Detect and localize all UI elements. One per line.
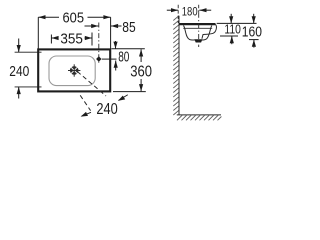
svg-text:240: 240 [9, 63, 29, 80]
basin inner bowl (plan view) [49, 56, 95, 86]
leader arrow upper-right [118, 95, 128, 101]
dimension 110 [217, 14, 257, 44]
svg-text:240: 240 [96, 101, 117, 118]
leader arrow lower-left [81, 112, 91, 117]
dimension 240 left [15, 39, 42, 99]
wall hatching (section) [173, 16, 179, 115]
basin front profile (section) [202, 24, 217, 38]
dimension 80 [102, 41, 145, 71]
svg-text:180: 180 [182, 4, 198, 18]
svg-text:360: 360 [130, 64, 152, 81]
tap hole diamond [96, 56, 101, 62]
bowl profile (section) [183, 26, 212, 41]
dimension 355 [51, 33, 92, 46]
dimension 180 [167, 5, 211, 23]
section centerline [198, 13, 200, 47]
basin rim (section) [179, 23, 216, 25]
tap hole centerline [98, 23, 100, 64]
floor hatching [177, 115, 221, 120]
svg-text:110: 110 [224, 22, 241, 37]
svg-text:160: 160 [242, 24, 262, 40]
second dashed leader segment [80, 95, 90, 110]
drain symbol [68, 64, 80, 76]
basin outer rim (plan view) [38, 49, 110, 91]
svg-text:355: 355 [60, 31, 83, 48]
wall face line [178, 16, 180, 115]
dimension 160 [249, 14, 259, 48]
dimension 360 [113, 49, 146, 91]
drain diagonal dashed leader [77, 72, 106, 97]
drain fitting (section) [194, 39, 202, 42]
bowl inner lip line (section) [183, 27, 212, 29]
svg-text:85: 85 [122, 20, 135, 36]
svg-text:80: 80 [118, 50, 129, 66]
svg-text:605: 605 [63, 9, 85, 26]
floor line [177, 114, 221, 116]
dimension 85 [85, 24, 122, 28]
dimension 605 [38, 15, 110, 48]
